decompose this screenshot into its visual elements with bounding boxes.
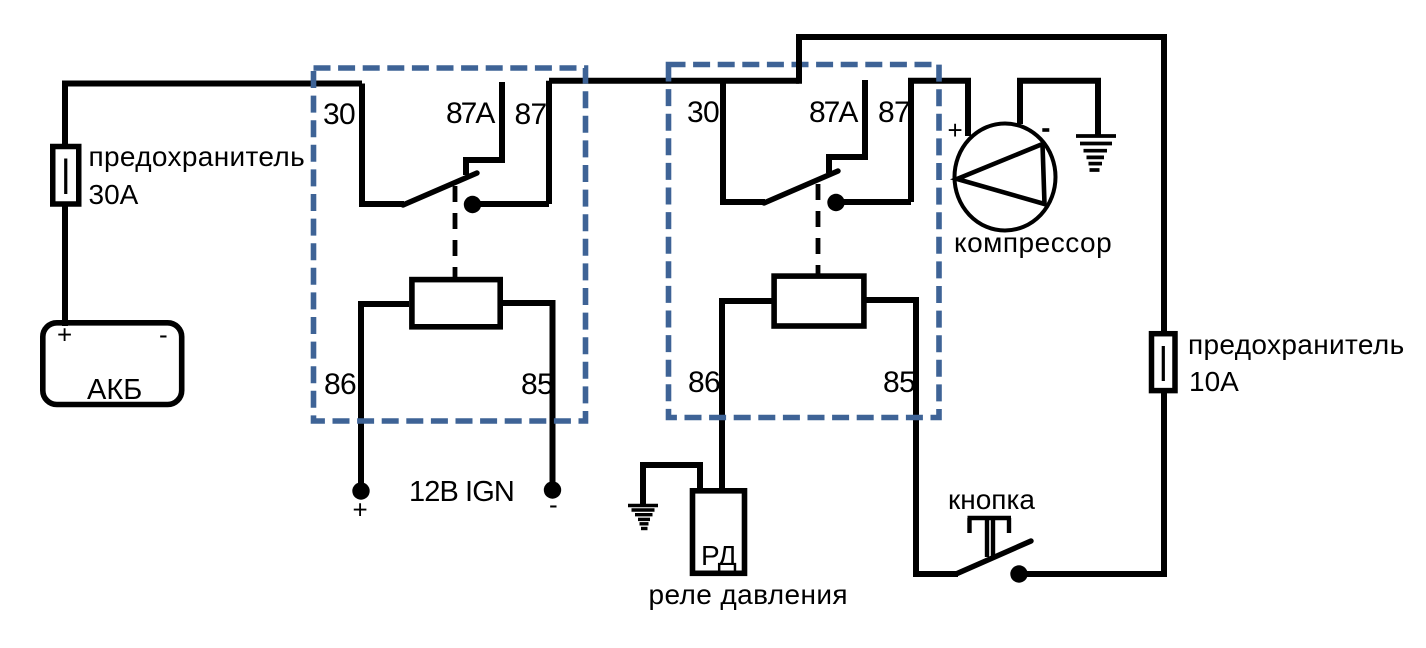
ground symbol at compressor [1076, 136, 1116, 170]
button SB1 armature [956, 541, 1031, 574]
svg-text:86: 86 [688, 366, 720, 399]
wire battery plus to fuse F1 [62, 206, 68, 326]
relay K1 contact junction dot [464, 196, 481, 213]
svg-text:РД: РД [701, 540, 737, 571]
fuse F2 element line [1162, 346, 1165, 381]
relay K2 pin 87 wire [908, 81, 914, 202]
fuse F1 30A body [53, 147, 79, 205]
relay K2 contact junction dot [827, 194, 844, 211]
relay K2 coil [774, 276, 864, 326]
wire fuse F2 to button [1019, 391, 1164, 574]
relay K2 wire dot to pin 87 [836, 199, 911, 205]
relay K2 pin 87A contact [829, 80, 865, 173]
relay K2 dashed enclosure [669, 65, 940, 418]
svg-text:30А: 30А [89, 179, 139, 210]
relay K2 actuation dashed link [816, 184, 821, 274]
wire relay K2 pin85 to button SB1 [913, 571, 958, 577]
svg-text:кнопка: кнопка [948, 484, 1035, 515]
svg-text:87А: 87А [446, 97, 495, 130]
svg-text:-: - [549, 490, 558, 520]
relay K1 coil [412, 280, 500, 327]
svg-text:87: 87 [878, 96, 910, 129]
relay K1 pin 87 wire [546, 81, 552, 204]
svg-text:10А: 10А [1189, 366, 1239, 397]
pressure switch RD body [693, 491, 745, 574]
relay K1 actuation dashed link [453, 186, 458, 277]
terminal dot 12V minus [544, 481, 561, 498]
svg-text:компрессор: компрессор [954, 227, 1112, 258]
svg-text:86: 86 [324, 368, 356, 401]
relay K1 armature switch [403, 173, 477, 205]
button SB1 contact dot [1010, 565, 1027, 582]
svg-text:85: 85 [883, 366, 915, 399]
wire relay K2 pin87 to compressor plus [908, 81, 968, 136]
svg-text:87А: 87А [809, 96, 858, 129]
svg-text:30: 30 [687, 96, 719, 129]
svg-text:предохранитель: предохранитель [1188, 329, 1405, 360]
relay K1 coil wire to pin 86 [361, 304, 409, 487]
svg-text:реле давления: реле давления [649, 579, 848, 610]
relay K2 coil wire to pin 85 [866, 300, 916, 574]
wire compressor minus to ground [1020, 81, 1098, 136]
wire riser to top bus and fuse F2 [799, 37, 1164, 333]
terminal dot 12V plus [352, 482, 369, 499]
compressor M1 triangle [957, 144, 1045, 204]
svg-text:30: 30 [323, 98, 355, 131]
relay K1 wire dot to pin 87 [472, 201, 549, 207]
compressor minus mark [1042, 128, 1049, 132]
svg-text:предохранитель: предохранитель [89, 141, 306, 172]
compressor M1 circle [955, 124, 1056, 231]
button SB1 plunger symbol [968, 518, 1012, 558]
svg-text:АКБ: АКБ [87, 374, 142, 406]
svg-text:+: + [948, 115, 963, 145]
svg-text:12В IGN: 12В IGN [409, 476, 514, 508]
svg-text:-: - [159, 320, 168, 350]
relay K2 pin 30 wire [723, 81, 765, 202]
fuse F1 element line [64, 159, 67, 195]
fuse F2 10A body [1152, 334, 1176, 391]
wire relay K2 pin86 to pressure switch [719, 400, 725, 488]
wire relay K1 pin87 to relay K2 area [549, 78, 799, 84]
battery G1 AKB body [43, 323, 182, 405]
svg-text:85: 85 [521, 368, 553, 401]
relay K1 pin 30 wire [362, 84, 404, 205]
relay K1 coil wire to pin 85 [503, 303, 553, 486]
relay K2 armature switch [764, 171, 838, 203]
ground symbol at pressure switch [628, 506, 658, 529]
relay K2 coil wire to pin 86 [722, 301, 772, 488]
svg-text:87: 87 [515, 98, 547, 131]
svg-text:+: + [353, 495, 368, 525]
wire fuse F1 to node top-left [65, 84, 362, 149]
wire pressure switch to ground [643, 465, 700, 504]
relay K1 pin 87A contact [466, 82, 502, 175]
svg-text:+: + [57, 320, 72, 350]
relay K1 dashed enclosure [314, 68, 586, 421]
